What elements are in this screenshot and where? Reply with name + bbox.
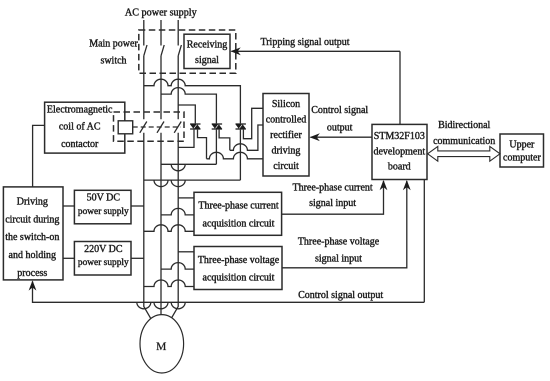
contact blade phase A: [140, 122, 147, 133]
svg-text:STM32F103: STM32F103: [374, 131, 425, 142]
svg-text:Electromagnetic: Electromagnetic: [47, 105, 113, 116]
svg-text:Three-phase current: Three-phase current: [198, 201, 278, 212]
svg-text:switch: switch: [100, 55, 126, 66]
220V DC power supply box: [74, 242, 131, 276]
main power switch dashed box: [139, 30, 236, 73]
bidirectional hollow double arrow: [428, 146, 500, 161]
svg-text:controlled: controlled: [266, 115, 307, 126]
switch blade phase C: [178, 45, 181, 56]
svg-text:signal: signal: [195, 55, 219, 66]
wire branch phase A to triac3 (hops over B and C): [144, 79, 241, 123]
svg-text:Three-phase current: Three-phase current: [292, 183, 372, 194]
svg-text:board: board: [388, 161, 411, 172]
receiving signal box: [184, 34, 230, 68]
svg-text:Silicon: Silicon: [272, 99, 300, 110]
svg-text:acquisition circuit: acquisition circuit: [203, 273, 275, 284]
svg-text:process: process: [17, 268, 47, 279]
wire triac1 main return to phase C: [178, 130, 194, 148]
svg-text:220V DC: 220V DC: [84, 244, 123, 255]
svg-text:and holding: and holding: [9, 250, 57, 261]
switch blade phase A: [144, 45, 147, 56]
wire voltage box to STM32 with up arrow: [282, 181, 407, 268]
svg-text:driving: driving: [272, 146, 301, 157]
coil rectangle: [118, 121, 133, 134]
switch blade phase B: [161, 45, 164, 56]
svg-text:acquisition circuit: acquisition circuit: [203, 218, 275, 229]
upper computer box: [500, 134, 544, 167]
svg-text:signal input: signal input: [315, 254, 362, 265]
wire triac2 gate to driver (hop over triac3 vertical): [219, 125, 263, 150]
svg-text:Main power: Main power: [89, 38, 138, 49]
wire 50V box to phase A: [131, 205, 144, 207]
electromagnetic coil box: [45, 102, 125, 153]
three-phase current acquisition circuit box: [194, 192, 282, 235]
wire branch phase C to triac1: [178, 105, 195, 123]
wire driving box to 220V box: [63, 257, 74, 259]
contactor linkage dashed line: [133, 126, 181, 128]
svg-text:Tripping signal output: Tripping signal output: [260, 37, 349, 48]
svg-text:power supply: power supply: [78, 258, 129, 268]
three-phase voltage acquisition circuit box: [194, 247, 282, 290]
svg-text:power supply: power supply: [78, 207, 129, 217]
svg-text:Control signal: Control signal: [311, 105, 368, 116]
wire phase B tap to current box (hop over C): [161, 208, 194, 215]
svg-text:communication: communication: [433, 136, 495, 147]
svg-text:Receiving: Receiving: [187, 40, 228, 51]
wire tripping vertical to STM32: [399, 51, 401, 124]
wire 220V box to phase A: [131, 257, 144, 259]
wire triac1 gate to driver (hops over triac2, triac3 verticals): [198, 130, 264, 159]
svg-text:Three-phase voltage: Three-phase voltage: [198, 255, 280, 266]
svg-text:M: M: [156, 341, 166, 353]
wire control signal output STM32 to driving box with up arrow: [33, 180, 425, 309]
svg-text:computer: computer: [503, 152, 541, 163]
triac Q2: [212, 123, 222, 129]
contact blade phase C: [174, 122, 181, 133]
50V DC power supply box: [74, 190, 131, 224]
motor M circle: [140, 315, 184, 373]
AC contactor dashed box: [114, 112, 185, 141]
triac Q1: [190, 123, 200, 129]
triac Q3: [236, 123, 246, 129]
STM32 development board box: [372, 124, 427, 179]
svg-text:signal input: signal input: [309, 198, 356, 209]
svg-text:50V DC: 50V DC: [87, 193, 121, 204]
svg-text:contactor: contactor: [61, 139, 99, 150]
wire phase C tap to current box: [178, 197, 194, 199]
wire phase A tap to voltage box (hops over B and C): [144, 280, 194, 287]
wire phase B vertical: [160, 20, 162, 315]
tripping signal wire with arrow into receiving box: [232, 50, 401, 52]
driving circuit box: [3, 187, 63, 280]
wire phase C tap to voltage box: [178, 251, 194, 253]
svg-text:circuit during: circuit during: [5, 214, 59, 225]
svg-text:Upper: Upper: [509, 139, 535, 150]
svg-text:AC power supply: AC power supply: [125, 7, 198, 18]
svg-text:the switch-on: the switch-on: [5, 232, 59, 243]
wire phase C vertical: [171, 20, 178, 319]
wire phase A vertical: [144, 20, 151, 319]
svg-text:Three-phase voltage: Three-phase voltage: [298, 237, 380, 248]
wire phase A tap to current box (hops over B and C): [144, 225, 194, 231]
svg-text:development: development: [373, 146, 425, 157]
wire phase B tap to voltage box (hop over C): [161, 263, 194, 270]
svg-text:Driving: Driving: [17, 197, 48, 208]
wire triac3 main return to phase A (hops over C and B): [144, 130, 241, 187]
wire branch phase B to triac2 (hop over C): [161, 88, 216, 124]
svg-text:rectifier: rectifier: [270, 130, 302, 141]
contact blade phase B: [157, 122, 164, 133]
silicon controlled rectifier driving circuit box: [263, 94, 309, 177]
svg-text:output: output: [327, 123, 353, 134]
svg-text:Bidirectional: Bidirectional: [438, 120, 490, 131]
wire driving box to 50V box: [63, 205, 74, 207]
control signal output arrow STM32 to driver box: [311, 136, 372, 138]
svg-text:coil of AC: coil of AC: [59, 122, 101, 133]
svg-text:circuit: circuit: [273, 161, 299, 172]
wire coil box to driving box: [33, 125, 45, 186]
wire triac3 gate to driver: [243, 108, 263, 138]
svg-text:Control signal output: Control signal output: [298, 290, 383, 301]
wire current box to STM32 with up arrow: [282, 181, 384, 214]
wire triac2 main return to phase B (hop over C): [161, 130, 216, 171]
